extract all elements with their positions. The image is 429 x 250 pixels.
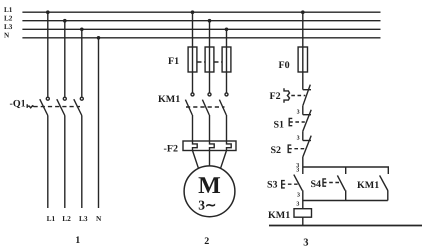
svg-text:L1: L1 [47,214,56,223]
F2 NC contact blade [303,85,311,106]
F2 heater element 3 [227,141,232,151]
switch Q1 pole3 blade [74,99,82,115]
F2 release symbol [284,88,290,103]
S2 pushbutton actuator [288,145,291,152]
wire F2 to motor right [221,151,227,169]
S2 NC contact bar [303,140,311,142]
switch Q1 pole3 contact circle [80,97,83,100]
KM1 pole2 blade [202,100,209,115]
F2 release dashed link [291,95,305,97]
branch bottom line [303,200,388,202]
S4 NO contact blade [337,175,345,190]
node L1 tap section3 [301,10,305,14]
S3 top stub [302,167,304,174]
wire L1 to Q1 pole1 [47,12,49,96]
node L1 tap section2 [191,10,195,14]
svg-text:3∼: 3∼ [198,197,216,212]
Q1 linkage dashed [34,106,81,108]
F2 heater element 2 [210,141,215,151]
node L3 tap section2 [225,28,229,32]
S3 pushbutton actuator [282,181,285,188]
svg-text:3: 3 [303,237,308,248]
S2 NC contact blade [303,136,311,157]
KM1 pole1 blade [185,100,192,115]
wire Q1 pole1 down [47,116,49,209]
S1 NC contact bar [303,114,311,116]
contactor KM1 pole2 circle [208,93,211,96]
node L2 tap section1 [63,19,67,23]
svg-text:S4: S4 [311,179,322,190]
Q1 manual actuator [27,104,34,108]
bus L1 [22,11,380,13]
node L2 tap section2 [208,19,212,23]
wire F2 to motor mid [209,151,211,166]
svg-text:3: 3 [296,201,299,207]
svg-text:N: N [96,214,102,223]
coil KM1 [294,209,312,218]
svg-text:F0: F0 [279,60,290,71]
svg-text:3: 3 [296,168,299,174]
wire KM1 pole3 to F2 [226,115,228,141]
wire L2 to Q1 pole2 [64,21,66,97]
svg-text:1: 1 [75,235,80,246]
svg-text:S1: S1 [274,120,285,131]
svg-text:-Q1: -Q1 [10,98,26,109]
svg-text:L2: L2 [62,214,71,223]
wire F2 to motor left [193,151,199,169]
svg-text:KM1: KM1 [357,180,379,191]
S4 dashed link [323,182,340,184]
switch Q1 pole2 blade [57,99,65,115]
svg-text:L3: L3 [4,23,13,31]
F2 heater element 1 [193,141,198,151]
wire KM1 pole1 to F2 [192,115,194,141]
wire L2 to F1b [209,21,211,93]
S1 NC contact blade [303,110,311,131]
bus N [22,37,380,39]
F1 linkage dashed [198,61,205,63]
wire Q1 pole3 down [81,116,83,209]
KM1 linkage dashed [186,106,225,108]
S4 pushbutton actuator [323,179,326,186]
switch Q1 pole1 contact circle [46,97,49,100]
svg-text:3: 3 [297,109,300,115]
S4 top stub [345,167,347,174]
motor M circle [184,166,235,217]
svg-text:M: M [198,173,221,199]
wire tee to coil [302,201,304,209]
svg-text:KM1: KM1 [158,94,180,105]
node N tap section1 [97,36,101,40]
wire Q1 pole2 down [64,116,66,209]
S3 dashed link [282,183,298,185]
S3 NO contact blade [294,175,303,191]
svg-text:S3: S3 [267,180,278,191]
svg-text:3: 3 [297,136,300,142]
fuse F0 [298,47,307,72]
S1 pushbutton actuator [289,118,292,125]
node L3 tap section1 [80,28,84,32]
switch Q1 pole1 blade [40,99,48,115]
KM1 pole3 blade [219,100,226,115]
wire N down [98,38,100,208]
svg-text:L3: L3 [79,214,88,223]
KM1 aux NO contact blade [380,175,388,190]
svg-text:N: N [4,32,10,40]
node L1 tap section1 [46,10,50,14]
wire F2 contact to S1 [302,106,304,115]
svg-text:-F2: -F2 [164,143,178,154]
bus L2 [22,20,380,22]
S2 dashed link [288,148,305,150]
bus L3 [22,28,380,30]
wire S3 bottom [302,190,304,200]
fuse F1a [188,47,197,72]
wire S1 to S2 [302,131,304,140]
svg-text:L1: L1 [4,6,13,14]
contactor KM1 pole1 circle [191,93,194,96]
wire S2 to tee [302,157,304,167]
svg-text:F1: F1 [168,56,179,67]
wire L3 to Q1 pole3 [81,29,83,96]
S1 dashed link [289,121,305,123]
wire F0 to F2 contact [302,72,304,90]
F2 NC contact bar [303,89,311,91]
wire KM1 pole2 to F2 [209,115,211,141]
wire L3 to F1c [226,29,228,93]
wire S4 bottom [345,190,347,200]
switch Q1 pole2 contact circle [63,97,66,100]
svg-text:3: 3 [297,193,300,199]
thermal relay F2 box [183,141,236,151]
wire coil to rail [302,217,304,225]
wire L1 to F0 [302,12,304,47]
fuse F1c [222,47,231,72]
wire F0 inner [302,47,304,72]
bottom rail [269,225,422,227]
wire L1 to F1a [192,12,194,93]
svg-text:KM1: KM1 [268,210,290,221]
svg-text:F2: F2 [270,91,281,102]
wire KM1 aux bottom [387,190,389,200]
svg-text:L2: L2 [4,14,13,22]
fuse F1b [205,47,214,72]
contactor KM1 pole3 circle [225,93,228,96]
branch top line [303,167,389,174]
svg-text:2: 2 [204,236,209,247]
svg-text:S2: S2 [271,145,282,156]
